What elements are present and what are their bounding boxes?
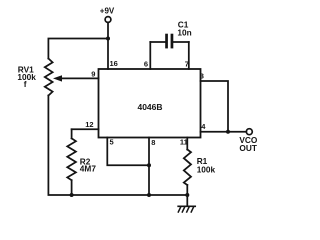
svg-text:100k: 100k: [17, 72, 36, 82]
node R1 bottom junction: [185, 193, 189, 197]
capacitor C1 10n: [150, 19, 191, 48]
output terminal VCO OUT: [239, 129, 258, 153]
resistor R2 4M7: [67, 129, 96, 195]
svg-text:8: 8: [151, 138, 155, 147]
svg-text:6: 6: [144, 59, 148, 68]
svg-text:11: 11: [180, 138, 188, 147]
wire C1 right to pin 7: [188, 42, 190, 69]
node pin5 pin8 junction: [147, 163, 151, 167]
wire supply rail to RV1 top: [48, 39, 108, 59]
svg-text:7: 7: [185, 60, 189, 69]
wire pin 12 to R2 top: [72, 128, 99, 130]
svg-text:12: 12: [85, 120, 93, 129]
svg-text:3: 3: [200, 72, 204, 81]
ground: [178, 195, 195, 212]
IC U1 4046B: [99, 69, 201, 138]
svg-text:4M7: 4M7: [80, 163, 97, 173]
svg-text:5: 5: [110, 138, 114, 147]
potentiometer RV1 100k: [17, 59, 98, 96]
resistor R1 100k: [184, 138, 216, 196]
wire +9V terminal down to pin 16: [107, 23, 109, 69]
svg-text:+9V: +9V: [100, 7, 115, 16]
svg-text:4046B: 4046B: [137, 102, 162, 112]
wire pin 3 to output node: [201, 81, 229, 132]
power terminal +9V: [100, 7, 115, 23]
node pin3 pin4 junction: [226, 130, 230, 134]
node supply junction: [106, 37, 110, 41]
svg-text:10n: 10n: [177, 28, 191, 38]
wire ground rail pin8 to R1: [149, 194, 187, 196]
wire pin 5 to pin 8: [107, 138, 149, 166]
svg-text:16: 16: [110, 59, 118, 68]
wire C1 left to pin 6: [149, 42, 151, 69]
node R2 bottom junction: [70, 193, 74, 197]
svg-text:f: f: [24, 79, 27, 89]
svg-text:OUT: OUT: [239, 143, 257, 153]
wire ground rail R2 to pin8: [72, 194, 149, 196]
wire pin 4 to VCO OUT terminal: [201, 131, 247, 133]
svg-text:100k: 100k: [197, 164, 216, 174]
node pin8 bottom junction: [147, 193, 151, 197]
wire RV1 bottom to ground rail: [48, 96, 71, 196]
wire pin 8 down to ground rail: [148, 138, 150, 196]
svg-text:9: 9: [91, 70, 95, 79]
